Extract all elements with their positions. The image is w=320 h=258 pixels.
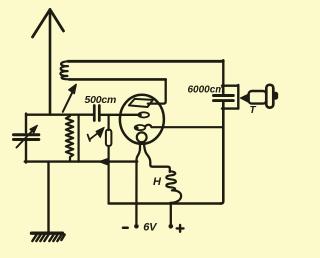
- wire: lower rail (filament negative): [25, 160, 137, 162]
- phone plug flange: [266, 85, 273, 108]
- svg-text:H: H: [153, 176, 162, 188]
- battery minus sign: [123, 226, 128, 229]
- wire: straight return beside L2: [77, 115, 79, 162]
- phone plug nub: [273, 92, 277, 99]
- coil tap arrow: [63, 92, 73, 112]
- ground symbol: [32, 231, 63, 234]
- wire: bottom rail: [109, 202, 222, 204]
- coil L1 bottom line: [69, 78, 166, 81]
- svg-text:T: T: [250, 105, 257, 116]
- svg-text:6V: 6V: [143, 221, 158, 233]
- capacitor C2 500cm plates: [93, 106, 96, 121]
- tube filament loop: [137, 132, 147, 142]
- phone jack J1: [222, 84, 238, 86]
- ground stem: [47, 162, 49, 232]
- variable capacitor C1: [14, 133, 39, 136]
- wire: right rail: [222, 60, 224, 94]
- wire: left edge of tuned loop: [25, 114, 27, 133]
- tube grid oval: [138, 112, 149, 117]
- capacitor C3 6000cm: [214, 94, 234, 97]
- battery plus lead: [170, 204, 172, 224]
- tube neck right lead to H coil: [144, 142, 170, 172]
- antenna A: [49, 10, 52, 115]
- grid leak pointer arrow: [90, 133, 98, 139]
- wire: grid-circuit top wire: [26, 113, 94, 115]
- tube neck left / battery minus lead: [136, 142, 140, 223]
- battery plus sign: [177, 227, 184, 229]
- coil L1 wavy left end: [60, 61, 69, 79]
- svg-text:6000cm: 6000cm: [188, 85, 225, 96]
- battery minus terminal: [134, 224, 139, 229]
- wire: filament top lead to right rail: [146, 125, 224, 127]
- junction blob on rail: [99, 159, 107, 165]
- phone plug tip: [240, 94, 249, 103]
- tube filament oval: [135, 125, 146, 130]
- tube plate (anode): [129, 99, 153, 107]
- coil L2 zigzag: [66, 115, 73, 162]
- svg-text:500cm: 500cm: [85, 94, 117, 106]
- grid leak R1: [107, 115, 109, 130]
- tube V1 envelope: [120, 95, 164, 144]
- coil H (filament rheostat): [166, 171, 181, 203]
- coil L1 top line: [68, 60, 223, 63]
- tube grid blob: [138, 113, 142, 117]
- phone plug body: [249, 91, 267, 104]
- wire: plate lead from coil bottom line: [148, 79, 166, 103]
